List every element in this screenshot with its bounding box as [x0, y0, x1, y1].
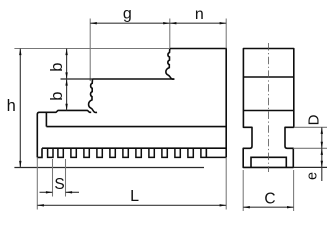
- svg-text:h: h: [7, 97, 16, 115]
- svg-text:C: C: [264, 190, 275, 207]
- svg-text:D: D: [306, 114, 323, 125]
- svg-text:b: b: [48, 63, 66, 72]
- svg-text:n: n: [195, 6, 204, 23]
- svg-text:e: e: [305, 172, 321, 180]
- svg-text:L: L: [130, 188, 139, 205]
- svg-text:S: S: [54, 176, 64, 193]
- svg-text:g: g: [123, 5, 132, 22]
- svg-text:b: b: [48, 92, 66, 101]
